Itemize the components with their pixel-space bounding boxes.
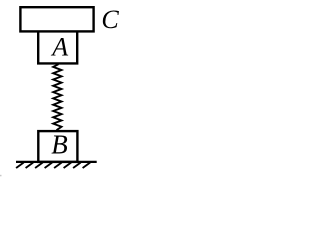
svg-text:C: C [101, 5, 119, 34]
block A (hangs below C, top side shared with C bottom edge) [38, 31, 77, 63]
block B (rests on ground) [38, 131, 77, 162]
spring between A and B [53, 64, 61, 130]
faint speck bottom-left (artifact in source) [0, 175, 2, 177]
svg-text:B: B [51, 130, 67, 160]
block C (top plate rectangle) [20, 7, 93, 31]
svg-text:A: A [50, 32, 68, 61]
ground line [16, 161, 97, 163]
ground hatching [16, 163, 90, 169]
